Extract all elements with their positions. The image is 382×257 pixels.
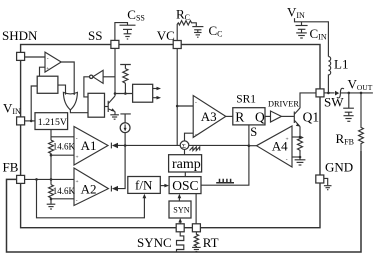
transistor Q2 [108,94,115,115]
wire: VIN pin to reference [25,120,35,122]
svg-text:14.6K: 14.6K [53,142,76,152]
wire: A4 upper input to emitter node [292,136,300,138]
wire: driver to Q1 base [281,115,294,117]
block B2 (logic box) [88,93,105,117]
svg-text:S: S [250,125,257,139]
IC boundary box [21,45,320,228]
svg-text:A3: A3 [201,109,217,124]
pin square SHDN [17,52,25,60]
node: R2 bottom [50,198,53,201]
svg-text:ramp: ramp [172,157,201,172]
pin square VC [173,41,181,49]
svg-text:CC: CC [209,23,223,39]
svg-text:-: - [47,56,49,62]
transistor Q1 [294,108,300,127]
driver triangle [271,111,282,122]
supply rail bar (above R3) [120,65,131,69]
svg-text:-: - [286,157,288,163]
sawtooth icon [190,147,200,151]
wire: A2 output up to A1 output node [118,146,125,189]
svg-text:Σ: Σ [182,143,186,150]
node: A3 input branch [176,105,179,108]
ground (under Rsense) [295,160,306,165]
svg-text:Q1: Q1 [303,109,320,124]
block 1.215V reference [35,113,68,130]
arrow: into f/N bottom [143,194,147,198]
inverter T2 (pointing left) [93,70,103,83]
arrow: B3 output 1 [153,88,159,90]
wire: A4 lower input to sense resistor bottom [292,156,300,158]
arrow: f/N to OSC [160,184,169,188]
pin square FB [17,175,25,183]
svg-text:-: - [195,100,197,106]
svg-text:SR1: SR1 [236,93,256,105]
wire: B1 right to OR gate input [58,85,66,95]
ground (under R2) [47,199,56,209]
wire: current source to A1 output node [124,133,126,146]
wire: node to B3 [115,93,133,95]
wire: A1 lower input [51,154,74,156]
wire: B2 to Q2 base [105,106,109,108]
arrow: SYNC pin up to SYN [178,218,182,224]
comparator A4 (pointing left) [257,126,293,167]
capacitor CIN [296,22,308,38]
wire: FB branch down and right to f/N [37,179,145,217]
node: FB line junction at divider [50,178,53,181]
wire: summing node top to A3 lower input [185,133,194,141]
svg-text:FB: FB [3,160,19,175]
svg-text:L1: L1 [334,57,348,72]
wire: A1 upper input [51,136,74,138]
ground (under Q2) [110,115,119,119]
wire: Q1 emitter down [299,127,301,137]
svg-text:RC: RC [176,7,190,23]
wire: VIN to L1 [295,18,329,56]
svg-text:f/N: f/N [135,178,153,193]
block ramp [169,155,202,172]
wire: VC pin vertical [176,49,178,146]
svg-text:A2: A2 [81,182,97,197]
node: emitter sense junction [299,136,302,139]
wire: diode to VOUT [340,92,373,94]
svg-text:+: + [46,66,49,72]
svg-text:DRIVER: DRIVER [268,99,299,108]
ground (under RT resistor) [192,247,201,251]
svg-text:GND: GND [325,160,353,175]
wire: RT to OSC [195,194,197,224]
svg-text:Q: Q [255,110,265,125]
svg-text:VIN: VIN [3,101,21,117]
resistor R1 14.6K [49,140,54,155]
svg-text:SW: SW [324,95,344,110]
wire: divider mid segment [50,155,52,184]
wire: branch to A3 upper input [177,105,193,107]
pin square GND [316,175,324,183]
pin square SW [316,89,324,97]
OR gate (pointing down) [63,92,77,110]
wire: A3 output to SR1 R input [226,115,233,117]
diode arrow at A1 output [111,143,118,149]
resistor R2 14.6K [49,185,54,200]
wire: T2 output to B2 upper input [84,77,90,97]
diode D1 (schottky) [335,88,344,98]
wire: T1 output to OR gate [61,62,74,95]
pin square SS [111,40,119,48]
pulse train icon [216,179,234,183]
wire: sense resistor to ground [299,151,301,159]
wire: feedback outer loop [7,151,362,252]
comparator A3 [193,96,226,138]
svg-text:CSS: CSS [127,7,145,23]
resistor RFB [359,93,364,151]
svg-text:SYN: SYN [173,205,189,214]
ground (at GND pin) [324,178,332,189]
wire: T2 input to SS line [103,76,115,78]
wire: A1 output line (VC node line) [118,144,180,146]
svg-text:-: - [76,136,78,142]
svg-text:OSC: OSC [172,178,198,193]
svg-text:SYNC: SYNC [137,235,172,250]
block B3 (comparator box) [133,84,153,102]
wire: FB line to A2 [25,178,74,180]
wire: reference bottom to divider [50,130,52,141]
arrow: B3 output 2 [153,97,159,99]
wire: Q1 collector to SW [300,93,316,108]
comparator T1 (shutdown) [45,52,61,72]
wire: SR1 S input from OSC [201,125,249,185]
sync waveform icon [177,232,184,252]
wire: OSC to SYN (arrow up) [178,197,180,201]
wire: summing node bottom to ramp [184,149,186,154]
wire: OR output to B2 lower input [70,110,88,113]
node: S junction with A4 output [248,144,251,147]
node: RFB junction [360,92,363,95]
svg-text:-: - [76,198,78,204]
wire: SS pin down to collector node [114,49,116,94]
svg-text:-: - [195,132,197,138]
diode arrow at A2 output [111,186,118,192]
svg-text:1.215V: 1.215V [38,117,67,128]
wire: A2 lower input [51,198,74,200]
wire: SR1 Q to driver [265,115,271,117]
pin square RT [192,224,200,232]
summing node circle [180,141,189,150]
svg-text:SS: SS [88,28,102,43]
node: R1 bottom [50,154,53,157]
node: bus top junction [124,144,127,147]
svg-text:+: + [76,155,79,161]
wire: ramp to OSC [184,172,186,177]
wire: T1 plus input stub [40,67,46,76]
svg-text:R: R [235,110,244,125]
svg-text:A1: A1 [81,138,97,153]
wire: R3 to node [124,83,126,93]
block SYN [169,201,191,218]
wire: B1 left to VIN node [31,86,37,121]
inductor L1 [328,57,330,93]
svg-text:VOUT: VOUT [348,77,373,93]
resistor R3 [123,69,128,84]
op-amp A2 [74,168,108,206]
pin square VIN left [17,117,25,125]
resistor at RT pin [194,232,198,248]
block f/N [128,177,161,194]
svg-text:RFB: RFB [336,131,354,147]
node: output cap junction [348,92,351,95]
block B1 (bandgap box) [37,76,58,93]
node: FB branch junction [35,178,38,181]
svg-text:RT: RT [203,235,219,250]
wire: summing node right to S line [189,144,249,146]
wire: SHDN pin to comparator T1 [25,56,45,58]
wire: A4 output to S line [249,145,257,147]
svg-text:+: + [76,179,79,185]
wire: SW to VOUT line [324,92,335,94]
capacitor Cout [343,93,354,121]
op-amp A1 [74,127,108,166]
node: L1 junction [327,92,330,95]
node: R3 junction [124,92,127,95]
svg-text:14.6K: 14.6K [53,186,76,196]
svg-text:VC: VC [157,28,175,43]
node: collector junction [114,92,117,95]
node: A4 lower junction [299,156,302,159]
svg-text:VIN: VIN [287,5,305,21]
pin square SYNC [176,224,184,232]
node: B1/VIN junction [30,120,33,123]
svg-text:SHDN: SHDN [2,28,38,43]
resistor Rsense [298,136,303,151]
current source I1 [120,123,130,133]
svg-text:CIN: CIN [310,26,327,42]
block OSC [169,177,201,194]
latch SR1 [233,108,265,125]
svg-text:+: + [286,136,289,142]
supply rail bar (above current source) [120,114,130,123]
